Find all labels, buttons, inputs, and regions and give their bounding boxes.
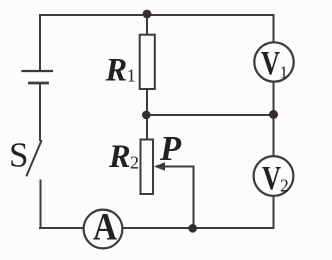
junction dot right: [269, 110, 278, 119]
svg-text:P: P: [159, 130, 182, 168]
svg-text:V: V: [261, 45, 280, 82]
svg-text:A: A: [93, 205, 117, 249]
wiper wire vertical: [193, 167, 195, 229]
wiper P arrowhead: [154, 162, 165, 171]
voltmeter V2 circle: [254, 156, 294, 196]
switch S blade: [27, 141, 42, 176]
battery B1 long plate: [23, 70, 53, 72]
junction dot top: [143, 10, 152, 19]
junction dot bottom: [188, 224, 197, 233]
wiper wire horizontal: [162, 166, 194, 168]
wire left middle (battery to switch): [39, 84, 41, 140]
wire left lower (switch to bottom): [40, 181, 42, 229]
svg-text:S: S: [9, 136, 28, 175]
voltmeter V1 circle: [254, 42, 293, 81]
svg-text:R: R: [105, 53, 128, 89]
battery B1 short plate: [30, 82, 48, 85]
wire bottom horizontal: [40, 227, 274, 229]
svg-text:1: 1: [280, 63, 289, 82]
svg-text:2: 2: [280, 176, 289, 196]
resistor R1 body: [140, 35, 155, 89]
wire R1 branch top: [146, 15, 148, 35]
svg-text:2: 2: [130, 153, 139, 173]
wire top horizontal: [40, 14, 274, 16]
wire R1 bottom to R2 top: [146, 89, 148, 140]
potentiometer R2 body: [141, 140, 154, 195]
wire right vertical: [273, 15, 275, 228]
svg-text:V: V: [262, 160, 281, 197]
svg-text:R: R: [108, 139, 131, 175]
junction dot middle: [142, 111, 151, 120]
svg-text:1: 1: [127, 65, 136, 85]
wire left upper (battery top lead): [39, 15, 41, 70]
wire middle horizontal: [147, 114, 274, 116]
ammeter A circle: [84, 210, 123, 249]
